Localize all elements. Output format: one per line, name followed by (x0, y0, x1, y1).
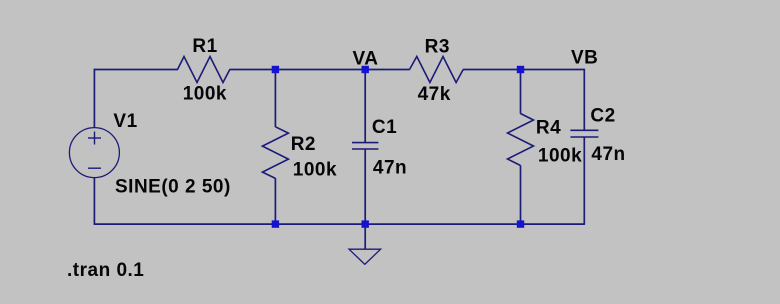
svg-text:SINE(0 2 50): SINE(0 2 50) (115, 177, 231, 198)
wire bottom rail (94, 223, 584, 225)
capacitor C1 (352, 143, 378, 149)
svg-text:R2: R2 (291, 134, 316, 155)
svg-text:C1: C1 (372, 117, 397, 138)
resistor R4 (508, 114, 534, 166)
wire top rail middle segment (230, 69, 410, 71)
junction at R2 bottom (272, 220, 279, 227)
ground (349, 249, 381, 264)
wire ground stub (364, 224, 366, 249)
svg-text:47n: 47n (373, 157, 407, 178)
resistor R2 (262, 127, 288, 179)
resistor R3 (410, 57, 464, 83)
wire left column lower (93, 178, 95, 225)
wire R4 column upper (520, 70, 522, 114)
svg-text:100k: 100k (293, 160, 337, 181)
svg-text:100k: 100k (183, 84, 227, 105)
junction at R2 top (272, 66, 279, 73)
svg-text:.tran 0.1: .tran 0.1 (67, 260, 144, 281)
wire top rail left segment (94, 69, 178, 71)
svg-text:47n: 47n (591, 144, 625, 165)
junction at R4 top (517, 66, 524, 73)
junction at ground node (362, 220, 369, 227)
svg-text:R4: R4 (536, 118, 561, 139)
svg-text:C2: C2 (590, 105, 615, 126)
wire VB column upper (583, 69, 585, 131)
V1 minus sign (88, 167, 101, 169)
svg-text:R3: R3 (425, 36, 450, 57)
wire VA column upper (364, 70, 366, 143)
V1 plus sign (88, 132, 101, 145)
wire left column upper (93, 69, 95, 128)
wire R2 column upper (274, 70, 276, 128)
wire R4 column lower (520, 165, 522, 224)
wire VB column lower (583, 137, 585, 225)
junction at node VA top (362, 66, 369, 73)
svg-text:47k: 47k (418, 84, 451, 105)
svg-text:VB: VB (571, 48, 598, 69)
svg-text:100k: 100k (538, 145, 582, 166)
wire R2 column lower (274, 178, 276, 224)
svg-text:V1: V1 (113, 111, 137, 132)
capacitor C2 (570, 130, 598, 137)
resistor R1 (178, 57, 230, 83)
junction at R4 bottom (517, 220, 524, 227)
svg-text:R1: R1 (192, 36, 217, 57)
voltage source V1 circle (69, 128, 119, 178)
wire VA column lower (364, 149, 366, 224)
wire top rail right segment (463, 69, 584, 71)
